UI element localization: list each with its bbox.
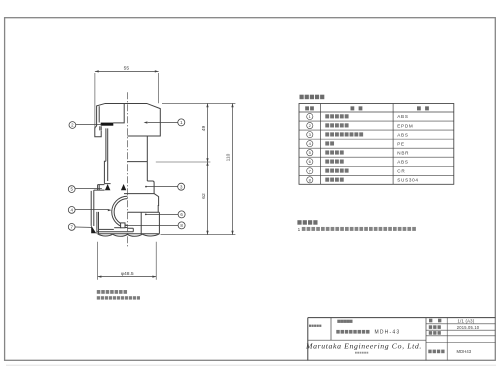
dimension 55 line bbox=[95, 70, 159, 72]
svg-text:φ48.5: φ48.5 bbox=[121, 271, 134, 277]
title block left/right divider bbox=[425, 318, 427, 361]
leader line to part 3 bbox=[145, 186, 147, 188]
Y-ring 5 right (black) bbox=[121, 184, 126, 190]
title block product cell divider bbox=[330, 318, 332, 341]
parts table column line 1 bbox=[320, 104, 322, 185]
parts table outer box bbox=[299, 104, 454, 185]
table balloon 4 bbox=[307, 141, 313, 147]
note under drawing line 1 (tsunagu enbi-kan) bbox=[97, 290, 101, 294]
cap skirt section bbox=[95, 126, 101, 137]
balloon 2 bbox=[69, 122, 76, 129]
title block right rows bbox=[426, 323, 495, 325]
table balloon 1 bbox=[307, 113, 313, 119]
balloon 6 bbox=[178, 211, 185, 218]
part name 6 (fukuro nut) bbox=[325, 159, 329, 163]
dome bottom line bbox=[114, 227, 120, 229]
balloon 4 bbox=[68, 207, 75, 214]
product line daidokoro nagashi mouhatsu-you bbox=[336, 330, 339, 334]
extension line bottom (62/110) bbox=[161, 234, 236, 236]
svg-text:Marutaka Engineering Co, Ltd.: Marutaka Engineering Co, Ltd. bbox=[305, 342, 422, 351]
part name 5 (Y ring) bbox=[325, 150, 329, 154]
table balloon 6 bbox=[307, 159, 313, 165]
svg-text:1/1 (A3): 1/1 (A3) bbox=[458, 319, 475, 324]
leader line to part 6 bbox=[145, 214, 147, 216]
nut wall left (section) bbox=[97, 212, 99, 234]
Y-ring housing (section left) bbox=[94, 184, 111, 191]
skirt inner lines bbox=[100, 126, 101, 130]
svg-text:55: 55 bbox=[124, 66, 130, 72]
stem tube left wall (section) bbox=[106, 128, 108, 181]
part name 8 (sara ko neji) bbox=[325, 178, 329, 182]
union nut facet line bbox=[140, 213, 142, 234]
screw 8 (section square) bbox=[121, 223, 125, 228]
title block outer bbox=[308, 318, 496, 361]
balloon 1 bbox=[178, 119, 185, 126]
svg-text:2015.05.10: 2015.05.10 bbox=[457, 325, 480, 330]
dimension 49/62 line bbox=[207, 103, 209, 234]
part name 3 (tategata chuukei setsuzoku hontai) bbox=[325, 132, 329, 136]
svg-text:62: 62 bbox=[201, 193, 207, 199]
svg-text:49: 49 bbox=[201, 126, 207, 132]
extension line shoulder (49/62) bbox=[156, 161, 211, 163]
svg-text:MDH-43: MDH-43 bbox=[375, 330, 401, 336]
leader line to part 8 bbox=[125, 225, 178, 227]
label zumen bangou (drawing number) bbox=[428, 350, 431, 354]
body outer wall (section) bbox=[91, 190, 94, 226]
svg-text:NBR: NBR bbox=[397, 150, 409, 155]
table balloon 3 bbox=[307, 132, 313, 138]
note under drawing line 2 (yobikei 40 gaikei 48mm) bbox=[97, 296, 100, 299]
label sakuseibi (date) bbox=[429, 325, 432, 329]
scan shadow line below frame bbox=[6, 364, 496, 366]
svg-text:110: 110 bbox=[226, 153, 232, 161]
rubber ring 7 (black triangle) bbox=[91, 226, 96, 234]
svg-text:EPDM: EPDM bbox=[397, 123, 413, 128]
stem tube step bbox=[104, 161, 106, 183]
svg-text:ABS: ABS bbox=[397, 132, 408, 137]
leader line to part 4 bbox=[75, 209, 108, 211]
valve dome 4 outer arc bbox=[112, 196, 128, 227]
balloon 5 bbox=[68, 186, 75, 193]
parts table column line 2 bbox=[392, 104, 394, 185]
title block right column divider bbox=[446, 318, 448, 361]
centerline bbox=[126, 92, 128, 246]
parts table header underline bbox=[299, 111, 454, 113]
union nut bottom line bbox=[98, 233, 160, 235]
hinmei katashiki label bbox=[309, 325, 311, 327]
leader line to part 5 bbox=[75, 188, 102, 190]
table balloon 7 bbox=[307, 168, 313, 174]
cap inner wall left bbox=[98, 106, 100, 122]
extension line top (49/110) bbox=[162, 102, 235, 104]
parts table title (shiyou buhin hyou) bbox=[300, 95, 304, 100]
svg-text:CR: CR bbox=[397, 168, 405, 173]
cap inner wall near center bbox=[113, 104, 124, 123]
balloon 8 bbox=[178, 222, 185, 229]
leader line to part 1 bbox=[148, 122, 178, 124]
dimension 55 extension lines bbox=[94, 73, 96, 129]
svg-text:ABS: ABS bbox=[397, 114, 408, 119]
label shukushaku (scale) bbox=[429, 319, 432, 323]
dimension phi48.5 line bbox=[98, 276, 157, 278]
svg-text:1: 1 bbox=[298, 227, 301, 232]
Y-ring 5 left (black) bbox=[105, 184, 111, 190]
leader line to part 2 bbox=[76, 124, 102, 126]
balloon 3 bbox=[178, 183, 185, 190]
inner bottom line bbox=[99, 228, 114, 230]
tier C top face line bbox=[124, 193, 154, 195]
table balloon 2 bbox=[307, 122, 313, 128]
label shouninin (approval) bbox=[429, 331, 432, 335]
section bottom line bbox=[97, 228, 133, 232]
header meishou bbox=[351, 106, 355, 110]
table balloon 8 bbox=[307, 177, 313, 183]
title block horizontal under product bbox=[308, 339, 426, 341]
part name 7 (gomu ring) bbox=[325, 169, 329, 173]
balloon 7 bbox=[68, 224, 75, 231]
company small text bbox=[355, 352, 357, 354]
cap U1 outline (part 1) bbox=[97, 103, 161, 136]
union nut bottom scallops bbox=[98, 234, 160, 236]
part name 4 (bentai) bbox=[325, 141, 329, 145]
product name minitoru3 bbox=[337, 320, 340, 323]
union nut right edge bbox=[158, 212, 160, 233]
header zaishitsu bbox=[417, 106, 421, 110]
union nut 6 top edge bbox=[127, 211, 159, 213]
notes title (tokki jikou) bbox=[297, 220, 301, 225]
dimension 110 line bbox=[232, 103, 234, 234]
tier B outline (part 3 body) bbox=[147, 181, 154, 194]
dimension phi48.5 extension lines bbox=[97, 242, 99, 280]
header bangou bbox=[305, 106, 309, 110]
table balloon 5 bbox=[307, 150, 313, 156]
svg-text:MDH43: MDH43 bbox=[457, 349, 472, 354]
valve dome 4 inner arc bbox=[114, 199, 127, 226]
shoulder face line bbox=[127, 161, 147, 163]
leader line to part 7 bbox=[75, 226, 91, 228]
part name 2 (gomu seal) bbox=[325, 123, 329, 127]
part name 1 (nigashiben hontai) bbox=[325, 114, 329, 118]
svg-text:PE: PE bbox=[397, 141, 405, 146]
svg-text:ABS: ABS bbox=[397, 159, 408, 164]
parts table row lines bbox=[299, 120, 454, 122]
stem right edge (exterior) bbox=[146, 136, 148, 181]
svg-text:SUS304: SUS304 bbox=[397, 178, 418, 183]
tier C chamfer and edge bbox=[154, 194, 159, 213]
rubber seal 2 (black) bbox=[101, 123, 114, 126]
